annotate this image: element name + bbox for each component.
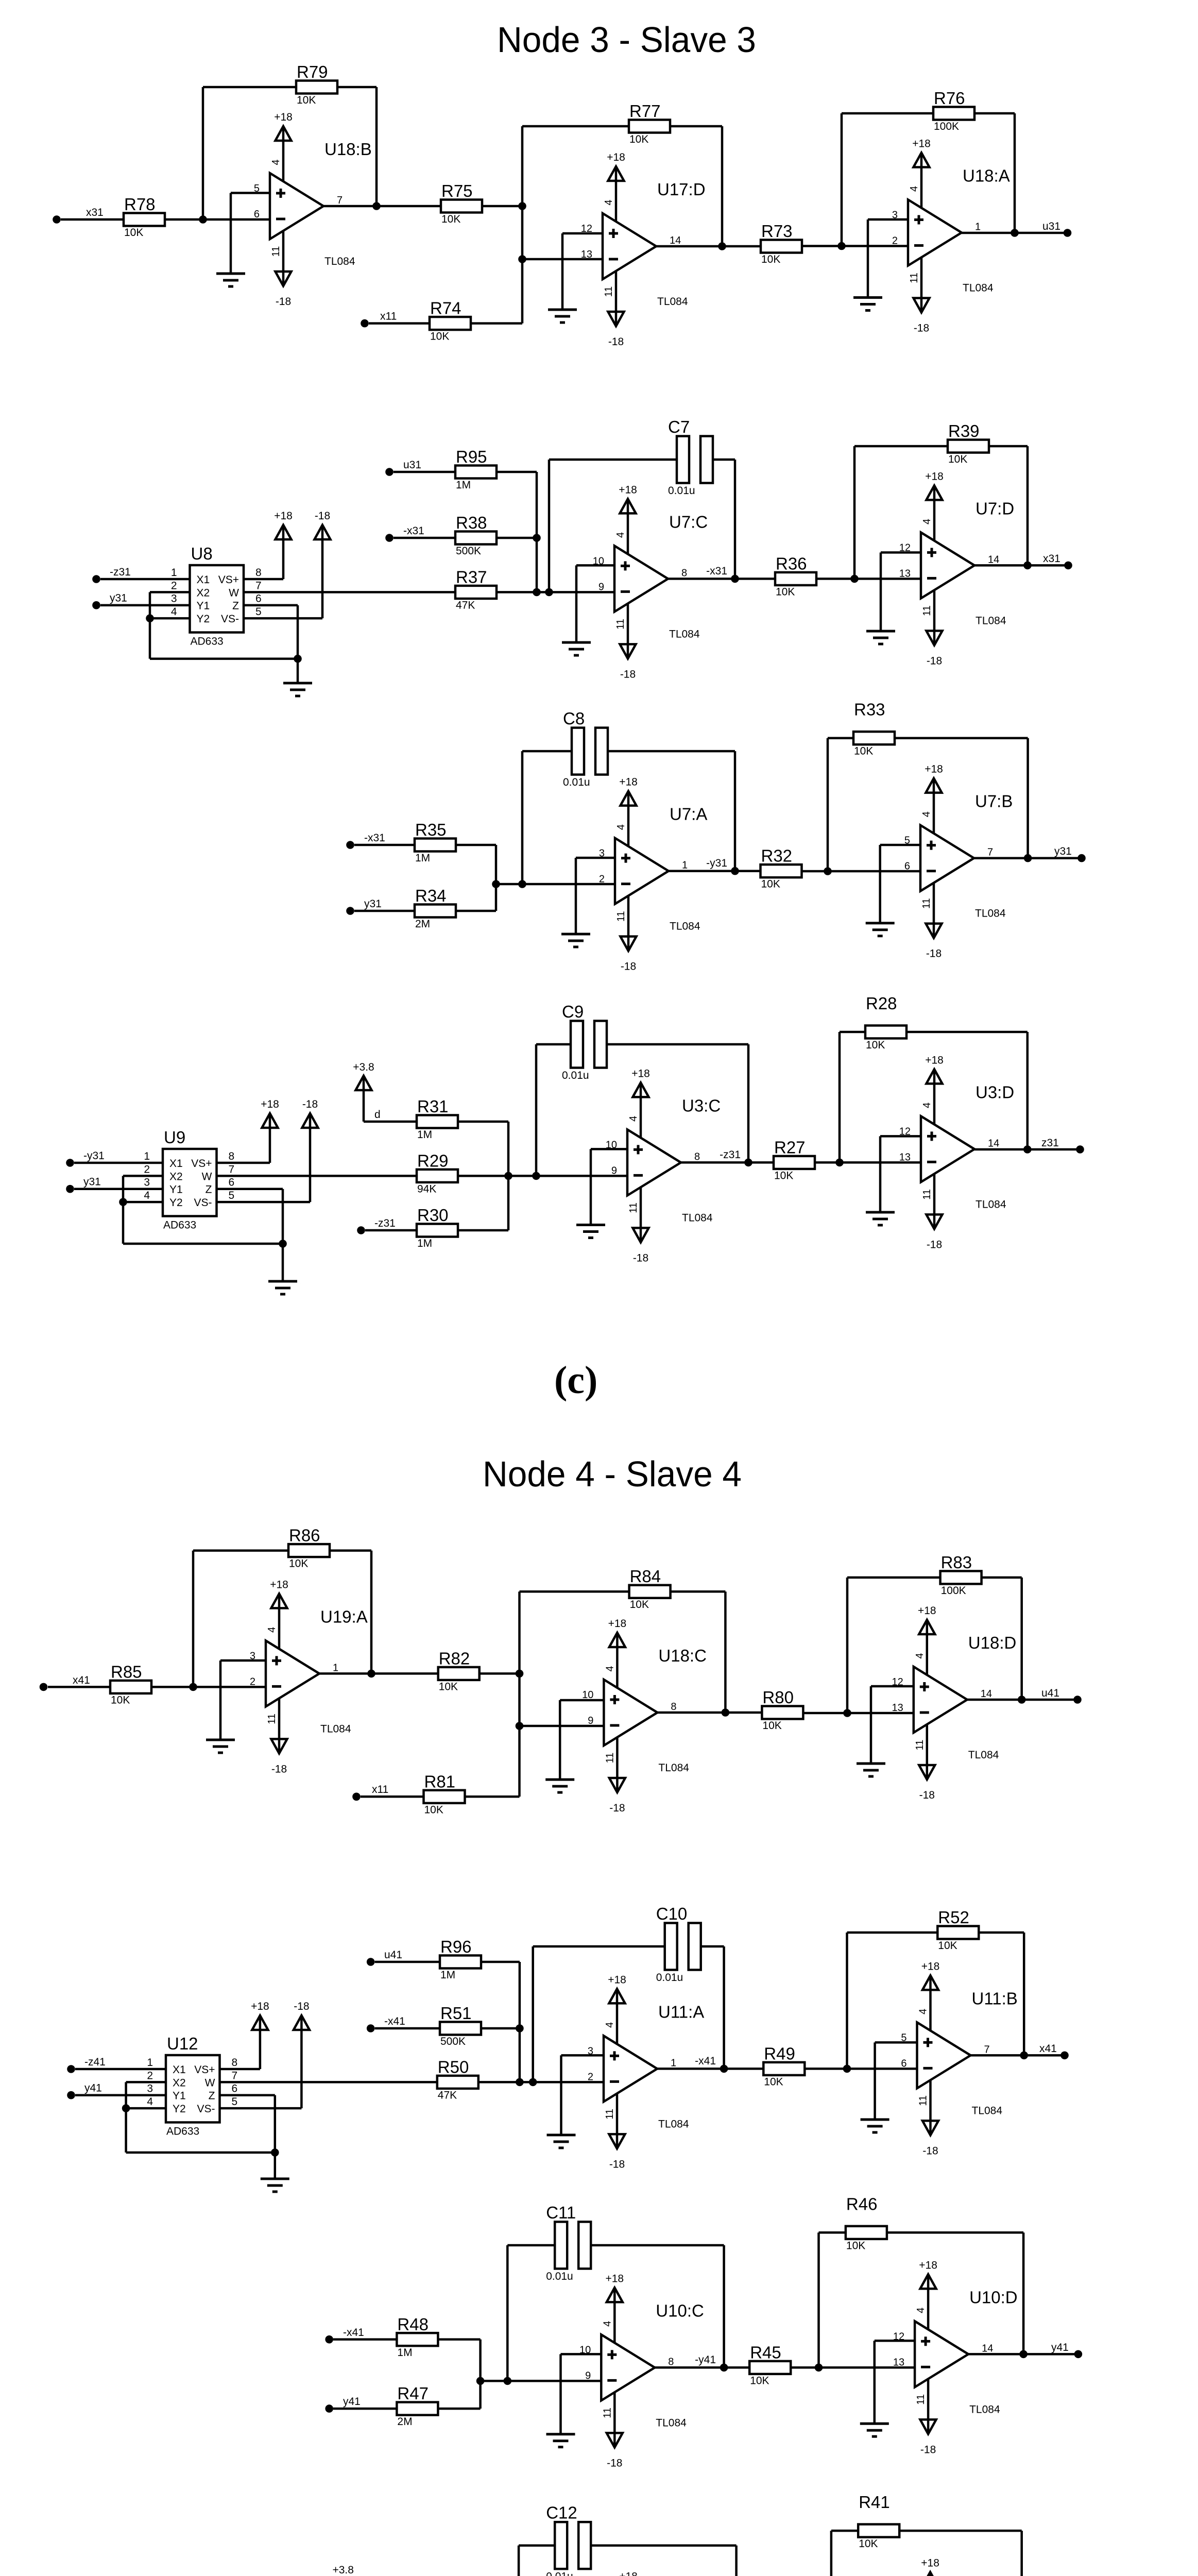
svg-text:0.01u: 0.01u <box>546 2571 573 2576</box>
svg-text:10K: 10K <box>761 878 780 890</box>
svg-text:-18: -18 <box>607 2457 622 2469</box>
junction C7 branch <box>545 588 553 597</box>
svg-text:8: 8 <box>232 2057 238 2069</box>
terminal u41 input <box>367 1958 375 1966</box>
svg-text:11: 11 <box>914 1740 926 1751</box>
svg-text:U18:B: U18:B <box>324 140 372 159</box>
svg-text:10K: 10K <box>430 331 449 343</box>
resistor R95 <box>455 447 497 491</box>
resistor R29 <box>417 1151 458 1195</box>
wire U9 Z to ground <box>217 1189 283 1244</box>
wire y31 to R34 <box>354 910 415 912</box>
op-amp U10:C <box>579 2273 704 2469</box>
svg-text:10: 10 <box>582 1689 593 1701</box>
svg-text:U7:C: U7:C <box>669 512 708 531</box>
wire U7:A output to R32 <box>669 870 761 872</box>
wire U12 X2Y2 to ground run <box>126 2108 275 2153</box>
wire x31 to R78 to U18:B inverting input <box>61 218 270 221</box>
wire U11:B + input to ground <box>875 2042 917 2120</box>
svg-text:11: 11 <box>921 605 933 616</box>
svg-text:-x31: -x31 <box>403 525 424 537</box>
svg-text:U11:A: U11:A <box>658 2002 704 2021</box>
svg-text:11: 11 <box>915 2394 927 2405</box>
svg-text:3: 3 <box>144 1177 150 1189</box>
junction R45/feedback U10:D <box>815 2364 823 2372</box>
svg-text:3: 3 <box>599 848 605 859</box>
svg-text:W: W <box>205 2077 215 2089</box>
svg-text:500K: 500K <box>456 545 481 557</box>
svg-text:Z: Z <box>232 600 239 612</box>
svg-text:5: 5 <box>232 2096 238 2108</box>
wire C9 branch <box>536 1044 571 1176</box>
wire ground stub U9 <box>282 1244 284 1281</box>
svg-text:u31: u31 <box>1042 221 1060 232</box>
junction bus row3 <box>492 880 500 888</box>
svg-text:-18: -18 <box>922 2145 938 2157</box>
svg-text:12: 12 <box>581 223 592 234</box>
svg-text:3: 3 <box>250 1650 255 1662</box>
svg-text:R36: R36 <box>776 554 807 573</box>
svg-text:X1: X1 <box>173 2064 186 2076</box>
junction bus row3d <box>476 2377 485 2385</box>
wire U3:D feedback <box>840 1032 1028 1162</box>
svg-text:-z31: -z31 <box>110 566 131 578</box>
wire U18:D output to u41 <box>967 1699 1077 1701</box>
wire U3:C output to R27 <box>681 1161 774 1164</box>
resistor R48 <box>397 2315 438 2359</box>
svg-text:U7:B: U7:B <box>975 792 1013 811</box>
svg-text:+18: +18 <box>925 1054 944 1066</box>
svg-text:R32: R32 <box>761 846 793 866</box>
wire U8 X2Y2 to ground run <box>150 618 298 659</box>
svg-text:(c): (c) <box>554 1359 597 1402</box>
wire x11 to R74 <box>369 322 430 325</box>
svg-text:100K: 100K <box>934 121 959 132</box>
wire C10 to U11:A output <box>701 1946 724 2069</box>
wire bus to U11:A inverting input <box>478 2081 604 2083</box>
svg-text:14: 14 <box>988 554 999 565</box>
junction C11 branch <box>504 2377 512 2385</box>
wire R45 to U10:D inverting input <box>791 2366 915 2369</box>
wire R38 to bus <box>497 537 537 539</box>
junction feedback/output U10:D <box>1019 2350 1028 2359</box>
svg-text:4: 4 <box>270 159 282 165</box>
wire C8 to U7:A output <box>608 751 735 871</box>
wire R81 to bus <box>465 1795 520 1798</box>
svg-text:10K: 10K <box>289 1558 308 1570</box>
wire U9 W to R29 <box>217 1175 417 1177</box>
terminal -x31 input <box>385 534 393 542</box>
wire bus to U7:A inverting input <box>496 883 615 886</box>
svg-text:13: 13 <box>899 568 911 579</box>
op-amp U19:A <box>250 1579 368 1775</box>
junction feedback/output U18:C <box>722 1708 730 1717</box>
svg-text:47K: 47K <box>456 599 475 611</box>
svg-text:-18: -18 <box>294 2001 309 2012</box>
wire U10:D feedback <box>819 2232 1024 2367</box>
junction X2/Y2 U9 <box>119 1198 127 1206</box>
svg-text:10K: 10K <box>630 1599 649 1611</box>
svg-text:U7:D: U7:D <box>975 499 1014 518</box>
junction Z/ground <box>294 655 302 663</box>
svg-text:2M: 2M <box>397 2416 412 2428</box>
svg-text:U18:D: U18:D <box>968 1633 1017 1652</box>
wire U18:C feedback <box>520 1591 726 1713</box>
svg-text:C11: C11 <box>546 2203 576 2222</box>
op-amp U3:D <box>899 1054 1014 1250</box>
svg-text:11: 11 <box>602 2408 613 2418</box>
svg-text:R38: R38 <box>456 513 487 532</box>
svg-text:+18: +18 <box>925 470 944 482</box>
terminal -x41 input row3d <box>325 2335 333 2344</box>
svg-text:TL084: TL084 <box>969 2403 1000 2415</box>
junction C10/output <box>720 2065 728 2073</box>
svg-text:3: 3 <box>147 2083 153 2095</box>
svg-text:R73: R73 <box>761 222 793 241</box>
svg-text:-x41: -x41 <box>384 2015 405 2027</box>
svg-text:-18: -18 <box>926 948 942 960</box>
terminal u31 output <box>1064 229 1072 237</box>
svg-text:1: 1 <box>682 860 688 871</box>
svg-text:R81: R81 <box>424 1772 456 1791</box>
svg-text:R51: R51 <box>440 2004 472 2023</box>
svg-text:11: 11 <box>604 2109 615 2120</box>
op-amp U18:B <box>254 111 372 308</box>
wire U10:C + input to ground <box>561 2354 602 2434</box>
svg-text:7: 7 <box>255 580 262 591</box>
svg-text:11: 11 <box>270 246 282 257</box>
wire C9 to U3:C output <box>607 1044 748 1162</box>
svg-text:11: 11 <box>909 273 920 283</box>
wire R82 to bus <box>480 1672 520 1675</box>
junction R27/feedback U3:D <box>835 1159 844 1167</box>
resistor R46 <box>846 2194 887 2251</box>
svg-text:11: 11 <box>921 898 932 909</box>
junction R36/feedback U7:D <box>850 575 859 583</box>
wire U10:B feedback <box>831 2531 1022 2576</box>
svg-text:TL084: TL084 <box>975 615 1006 626</box>
svg-text:9: 9 <box>611 1165 617 1176</box>
junction R75/bus <box>518 202 526 210</box>
svg-text:12: 12 <box>892 1676 903 1688</box>
junction feedback/output <box>372 202 381 210</box>
wire bus to U18:C inverting input <box>520 1725 604 1727</box>
terminal y41 output <box>1074 2350 1083 2359</box>
svg-text:R27: R27 <box>774 1138 806 1157</box>
svg-text:1M: 1M <box>440 1969 455 1981</box>
terminal y41 input row3d <box>325 2404 333 2413</box>
svg-text:11: 11 <box>266 1714 278 1724</box>
terminal -z41 input <box>67 2065 75 2073</box>
svg-text:7: 7 <box>337 195 343 206</box>
svg-text:10: 10 <box>593 555 604 567</box>
op-amp U3:C <box>606 1067 721 1264</box>
resistor R73 <box>761 222 802 265</box>
ground U18:C + <box>545 1780 574 1792</box>
svg-text:14: 14 <box>670 235 681 246</box>
svg-text:+18: +18 <box>918 1605 936 1617</box>
wire row1d bus vertical <box>518 1591 521 1797</box>
wire R27 to U3:D inverting input <box>815 1161 921 1164</box>
svg-text:X2: X2 <box>197 587 210 599</box>
op-amp U10:B <box>901 2557 1019 2576</box>
wire -x31 to R35 <box>354 844 415 846</box>
resistor R36 <box>775 554 816 598</box>
svg-text:TL084: TL084 <box>975 1198 1006 1210</box>
svg-text:y31: y31 <box>1054 845 1072 857</box>
svg-text:9: 9 <box>598 581 604 592</box>
resistor R37 <box>455 567 497 611</box>
wire -z31 to U8 X1 <box>100 578 190 581</box>
wire U18:B feedback loop <box>203 87 376 219</box>
svg-text:C8: C8 <box>563 709 585 728</box>
svg-text:8: 8 <box>681 567 687 579</box>
svg-text:R80: R80 <box>762 1688 794 1707</box>
power -18 U8 <box>315 510 331 539</box>
svg-text:TL084: TL084 <box>682 1212 713 1224</box>
svg-text:Y2: Y2 <box>197 613 210 625</box>
wire bus to U17:D inverting input <box>522 258 603 261</box>
svg-text:4: 4 <box>266 1627 278 1633</box>
svg-text:13: 13 <box>893 2357 904 2368</box>
ground U12 <box>261 2179 289 2192</box>
svg-text:+18: +18 <box>921 1960 940 1972</box>
svg-text:13: 13 <box>581 249 592 260</box>
svg-text:TL084: TL084 <box>656 2417 687 2429</box>
junction R82/bus <box>516 1670 524 1678</box>
svg-text:13: 13 <box>892 1702 903 1714</box>
svg-text:10K: 10K <box>124 227 143 239</box>
wire -x31 to R38 <box>393 537 455 539</box>
svg-text:6: 6 <box>904 861 910 872</box>
wire -x41 to R51 <box>375 2027 440 2030</box>
power -18 U9 <box>302 1098 318 1128</box>
junction R85/feedback <box>189 1683 197 1691</box>
resistor R81 <box>424 1772 465 1816</box>
svg-text:R35: R35 <box>415 820 447 839</box>
svg-text:9: 9 <box>585 2370 591 2381</box>
resistor R35 <box>415 820 456 864</box>
wire U3:C + input to ground <box>591 1149 627 1225</box>
wire U18:A feedback <box>842 113 1015 246</box>
svg-text:-18: -18 <box>620 668 636 680</box>
svg-text:4: 4 <box>921 1103 933 1108</box>
wire d input to R31 <box>364 1076 417 1122</box>
wire U11:B output to x41 <box>971 2054 1065 2057</box>
svg-text:TL084: TL084 <box>963 282 994 294</box>
resistor R47 <box>397 2384 438 2428</box>
svg-text:10K: 10K <box>846 2240 865 2251</box>
svg-text:+18: +18 <box>251 2001 269 2012</box>
terminal y31 input row3 <box>346 907 354 915</box>
multiplier U12 <box>147 2034 237 2138</box>
svg-text:AD633: AD633 <box>166 2126 199 2138</box>
svg-text:11: 11 <box>603 286 614 297</box>
junction bus row4 <box>504 1172 512 1180</box>
resistor R80 <box>762 1688 803 1732</box>
junction R49/feedback U11:B <box>843 2065 851 2073</box>
svg-text:10K: 10K <box>948 453 967 465</box>
junction bus/U18:C - <box>516 1722 524 1730</box>
svg-text:X2: X2 <box>173 2077 186 2089</box>
svg-text:10: 10 <box>579 2344 591 2355</box>
svg-text:U12: U12 <box>167 2034 198 2053</box>
wire C8 branch <box>522 751 572 884</box>
svg-text:+18: +18 <box>608 1618 627 1630</box>
wire U18:A output to u31 <box>962 232 1067 234</box>
wire U12 VS- to -18 <box>220 2015 302 2108</box>
ground U17:D + <box>548 310 577 323</box>
resistor R82 <box>438 1649 480 1692</box>
wire U9 VS+ to +18 <box>217 1113 270 1163</box>
svg-text:Node 4 - Slave 4: Node 4 - Slave 4 <box>483 1454 742 1494</box>
wire x41 to R85 to U19:A inverting input <box>48 1686 266 1688</box>
wire C11 to U10:C output <box>591 2245 724 2367</box>
junction R32/feedback U7:B <box>824 867 832 875</box>
svg-text:R48: R48 <box>397 2315 429 2334</box>
svg-text:5: 5 <box>229 1190 235 1201</box>
wire U8 VS+ to +18 <box>244 525 283 579</box>
svg-text:14: 14 <box>982 2343 993 2354</box>
svg-text:U3:D: U3:D <box>975 1082 1014 1101</box>
ground U8 <box>283 683 312 696</box>
svg-text:1: 1 <box>147 2057 153 2069</box>
svg-text:Y2: Y2 <box>169 1197 183 1209</box>
terminal u31 input <box>385 468 393 476</box>
svg-text:x41: x41 <box>1039 2043 1057 2055</box>
svg-text:5: 5 <box>255 606 262 618</box>
svg-text:10K: 10K <box>774 1170 793 1181</box>
svg-text:VS+: VS+ <box>194 2064 215 2076</box>
terminal y31 output <box>1077 854 1086 862</box>
svg-text:X1: X1 <box>169 1158 183 1170</box>
svg-text:Y1: Y1 <box>173 2090 186 2102</box>
svg-text:4: 4 <box>914 1653 926 1658</box>
terminal y31 input <box>92 601 100 609</box>
svg-text:u41: u41 <box>384 1949 402 1961</box>
svg-text:x41: x41 <box>73 1674 90 1686</box>
wire R47 to bus <box>438 2408 480 2410</box>
resistor R39 <box>948 421 989 465</box>
junction C8/output <box>731 867 739 875</box>
wire U10:D output to y41 <box>968 2353 1078 2355</box>
svg-text:11: 11 <box>921 1189 933 1200</box>
wire U9 X2Y2 to ground run <box>123 1202 283 1244</box>
svg-text:-y41: -y41 <box>695 2354 716 2366</box>
svg-text:Y1: Y1 <box>197 600 210 612</box>
resistor R31 <box>417 1097 458 1141</box>
svg-text:+3.8: +3.8 <box>353 1061 374 1073</box>
wire U11:A + input to ground <box>561 2055 604 2135</box>
svg-text:100K: 100K <box>941 1585 966 1597</box>
capacitor C7 <box>668 417 713 497</box>
junction Z/ground U12 <box>271 2148 279 2157</box>
svg-text:2M: 2M <box>415 918 430 930</box>
svg-text:VS-: VS- <box>194 1197 212 1209</box>
junction feedback/output U7:B <box>1024 854 1032 862</box>
wire U7:D feedback <box>854 446 1028 579</box>
wire U8 W to R37 <box>244 591 455 594</box>
resistor R33 <box>853 700 895 757</box>
ground U3:C + <box>576 1225 605 1238</box>
junction feedback/output U18:A <box>1011 229 1019 237</box>
wire C12 to U10:A output <box>591 2546 736 2576</box>
svg-text:+18: +18 <box>619 2570 638 2576</box>
svg-text:10K: 10K <box>938 1940 957 1952</box>
terminal -z31 input <box>92 575 100 583</box>
wire u41 to R96 <box>375 1961 440 1963</box>
svg-text:1: 1 <box>144 1150 150 1162</box>
wire ground stub U12 <box>274 2153 277 2179</box>
svg-text:10K: 10K <box>859 2538 878 2550</box>
wire y31 to U8 Y1 <box>100 604 190 606</box>
wire C10 branch <box>533 1946 665 2082</box>
junction bus/W panel d <box>516 2078 524 2087</box>
wire ground stub U8 <box>297 659 299 683</box>
wire U7:C + input to ground <box>576 565 614 642</box>
svg-text:U19:A: U19:A <box>320 1607 368 1626</box>
resistor R28 <box>865 994 906 1051</box>
op-amp U17:D <box>581 151 706 348</box>
power +18 U12 <box>251 2001 269 2030</box>
svg-text:0.01u: 0.01u <box>546 2270 573 2282</box>
wire x11 to R81 <box>361 1795 424 1798</box>
junction C7/output <box>731 575 739 583</box>
svg-text:R85: R85 <box>111 1662 142 1681</box>
resistor R52 <box>937 1908 979 1952</box>
svg-text:TL084: TL084 <box>324 256 355 267</box>
ground U7:C + <box>562 642 591 655</box>
svg-text:R78: R78 <box>124 195 156 214</box>
svg-text:8: 8 <box>694 1151 700 1162</box>
wire R95 to bus <box>497 472 537 592</box>
svg-text:7: 7 <box>984 2044 990 2055</box>
svg-text:8: 8 <box>229 1150 235 1162</box>
svg-text:11: 11 <box>615 911 627 922</box>
wire U9 X2 to Y2 tie <box>123 1176 163 1202</box>
svg-text:R84: R84 <box>630 1567 661 1586</box>
junction feedback/output U11:B <box>1020 2052 1028 2060</box>
resistor R85 <box>110 1662 151 1706</box>
junction R38/bus <box>533 534 541 542</box>
wire U10:D + input to ground <box>875 2341 915 2424</box>
svg-text:+18: +18 <box>608 1974 626 1986</box>
svg-text:+18: +18 <box>912 138 931 150</box>
wire U17:D + input to ground <box>562 233 603 310</box>
op-amp U7:D <box>899 470 1014 667</box>
svg-text:-18: -18 <box>927 655 942 667</box>
wire C7 to U7:C output <box>713 460 735 579</box>
wire U18:D feedback <box>847 1578 1022 1713</box>
svg-text:C10: C10 <box>656 1904 688 1923</box>
svg-text:10K: 10K <box>750 2375 769 2386</box>
svg-text:R30: R30 <box>417 1206 449 1225</box>
ground U7:B + <box>866 923 895 936</box>
svg-text:0.01u: 0.01u <box>563 776 590 788</box>
svg-text:U8: U8 <box>191 544 213 563</box>
svg-text:U11:B: U11:B <box>972 1989 1018 2008</box>
terminal x11 input panel d <box>352 1793 361 1801</box>
svg-text:R47: R47 <box>397 2384 429 2403</box>
svg-text:9: 9 <box>588 1715 593 1726</box>
terminal -x31 input row3 <box>346 841 354 849</box>
wire U8 Z to ground <box>244 605 298 659</box>
wire y31 to U9 Y1 <box>74 1188 163 1190</box>
svg-text:R77: R77 <box>629 101 661 121</box>
wire U3:D output to z31 <box>974 1148 1080 1151</box>
op-amp U18:C <box>582 1618 707 1814</box>
svg-text:-y31: -y31 <box>706 857 727 869</box>
